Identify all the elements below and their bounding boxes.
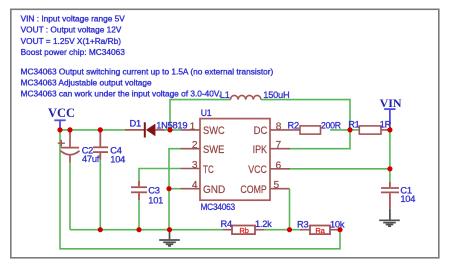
svg-text:1.2k: 1.2k xyxy=(255,219,272,229)
svg-text:2: 2 xyxy=(192,140,198,151)
capacitor C1 xyxy=(381,182,399,209)
svg-text:C3: C3 xyxy=(148,185,159,195)
svg-text:GND: GND xyxy=(203,184,226,196)
svg-text:SWE: SWE xyxy=(203,144,224,156)
junction R2 R1 IPK node xyxy=(347,127,352,132)
junction pin6 C1 node xyxy=(387,166,392,171)
svg-text:104: 104 xyxy=(110,154,125,164)
junction C3 rail xyxy=(136,227,141,232)
wire C4 lower lead to rail xyxy=(99,159,101,230)
svg-text:MC34063 Adjustable output volt: MC34063 Adjustable output voltage xyxy=(21,77,152,87)
annotation text block 1 xyxy=(21,14,126,58)
wire pin3 TC to C3 xyxy=(139,169,181,182)
svg-text:1: 1 xyxy=(190,121,196,132)
pin 7 IPK stub xyxy=(270,148,290,150)
inductor L1 xyxy=(231,95,261,99)
wire VIN stem to R1 node xyxy=(389,124,391,130)
svg-text:200R: 200R xyxy=(321,120,341,130)
junction R1 VIN node xyxy=(387,127,392,132)
annotation text block 2 xyxy=(21,66,274,98)
wire C3 lower lead to rail xyxy=(138,200,140,230)
svg-text:DC: DC xyxy=(254,125,268,137)
wire ground rail xyxy=(70,229,223,231)
wire L1 left drop xyxy=(170,100,231,130)
power symbol VCC xyxy=(54,120,65,130)
svg-text:Rb: Rb xyxy=(239,226,248,235)
IC U1 MC34063 body xyxy=(200,119,270,201)
svg-text:D1: D1 xyxy=(130,118,141,128)
junction C4 top xyxy=(98,127,103,132)
wire pin2 SWE down to GND net xyxy=(169,149,181,230)
svg-text:Boost power chip: MC34063: Boost power chip: MC34063 xyxy=(21,47,126,57)
resistor R1 xyxy=(359,126,390,134)
svg-text:VCC: VCC xyxy=(248,164,267,176)
junction Ra VCC return node xyxy=(337,227,342,232)
capacitor C3 xyxy=(131,181,147,200)
svg-text:TC: TC xyxy=(203,164,214,176)
svg-text:VIN: VIN xyxy=(380,96,402,110)
svg-text:IPK: IPK xyxy=(253,144,267,156)
svg-text:104: 104 xyxy=(400,194,415,204)
svg-text:VOUT : Output voltage 12V: VOUT : Output voltage 12V xyxy=(21,25,122,35)
wire R2 right to node xyxy=(330,129,350,131)
ground symbol center xyxy=(159,231,180,246)
resistor R3 Ra xyxy=(300,226,340,235)
svg-text:MC34063 Output switching curre: MC34063 Output switching current up to 1… xyxy=(21,66,274,76)
wire Rb to divider node xyxy=(264,229,300,231)
svg-text:150uH: 150uH xyxy=(263,90,289,100)
pin 6 VCC stub xyxy=(270,168,290,170)
wire VCC rail top xyxy=(60,129,126,131)
svg-text:COMP: COMP xyxy=(240,184,266,196)
resistor R2 xyxy=(300,126,321,134)
svg-text:Ra: Ra xyxy=(315,226,325,235)
wire L1 right to R2R1 node xyxy=(261,100,350,130)
svg-text:MC34063: MC34063 xyxy=(201,202,235,212)
junction GND rail xyxy=(167,227,172,232)
ground symbol under C1 xyxy=(379,209,400,227)
svg-text:SWC: SWC xyxy=(203,125,225,137)
svg-text:R3: R3 xyxy=(297,220,308,230)
junction VCC stem xyxy=(57,127,62,132)
diode D1 xyxy=(125,122,165,137)
svg-text:8: 8 xyxy=(276,121,282,132)
svg-text:R4: R4 xyxy=(221,219,232,229)
junction pin4 GND node xyxy=(166,186,171,191)
pin 2 SWE stub xyxy=(181,148,201,150)
svg-text:L1: L1 xyxy=(220,90,230,100)
wire Ra right down and bottom return xyxy=(60,130,340,249)
capacitor C4 xyxy=(93,130,108,160)
power symbol VIN xyxy=(384,109,395,126)
svg-text:R2: R2 xyxy=(288,120,299,130)
wire VIN node down to pin6 node and C1 xyxy=(389,130,391,183)
wire D1 to pin1 xyxy=(164,129,181,131)
wire pin7 IPK to node xyxy=(290,130,350,149)
junction D1 cathode node xyxy=(167,127,172,132)
svg-text:U1: U1 xyxy=(201,108,212,118)
pin 1 SWC stub xyxy=(181,129,201,131)
resistor R4 Rb xyxy=(223,226,264,235)
wire pin5 COMP down to divider node xyxy=(289,189,291,230)
wire node to R1 xyxy=(350,129,359,131)
svg-text:101: 101 xyxy=(148,195,163,205)
wire pin6 VCC to C1 node xyxy=(290,168,390,170)
pin 3 TC stub xyxy=(181,168,201,170)
junction C4 rail xyxy=(98,227,103,232)
svg-text:VCC: VCC xyxy=(48,106,75,120)
wire pin4 GND to vertical xyxy=(169,188,181,190)
svg-text:3: 3 xyxy=(192,160,198,171)
svg-text:7: 7 xyxy=(276,140,282,151)
pin 5 COMP stub xyxy=(270,188,290,190)
svg-text:4: 4 xyxy=(192,180,198,191)
svg-text:47uf: 47uf xyxy=(82,154,100,164)
svg-text:MC34063 can work under the inp: MC34063 can work under the input voltage… xyxy=(21,89,221,99)
capacitor C2 polarized xyxy=(58,130,80,163)
junction divider COMP node xyxy=(287,227,292,232)
svg-text:6: 6 xyxy=(276,160,282,171)
wire C2 lower lead to rail xyxy=(69,162,71,230)
svg-text:10k: 10k xyxy=(330,219,345,229)
junction C2 top xyxy=(67,127,72,132)
pin 8 DC stub xyxy=(270,129,300,131)
svg-text:5: 5 xyxy=(274,180,280,191)
svg-text:VOUT = 1.25V X(1+Ra/Rb): VOUT = 1.25V X(1+Ra/Rb) xyxy=(21,36,122,46)
pin 4 GND stub xyxy=(181,188,201,190)
svg-text:VIN : Input voltage range 5V: VIN : Input voltage range 5V xyxy=(21,14,126,24)
